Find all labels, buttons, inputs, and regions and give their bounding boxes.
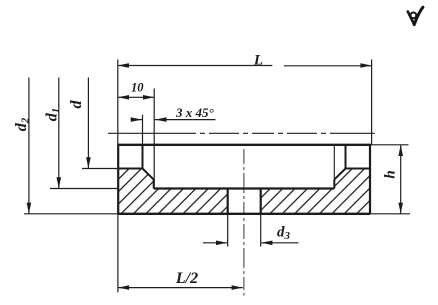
- dimension line h: [400, 145, 402, 214]
- arrow 10 right: [143, 95, 154, 100]
- svg-text:10: 10: [131, 81, 144, 95]
- dimension d3 left segment: [203, 242, 227, 244]
- arrow h top: [398, 145, 403, 156]
- extension line d2 (bottom, extends left): [24, 213, 118, 215]
- hatch region right (rim + right bottom band): [261, 169, 370, 214]
- hatch region left (rim + left bottom band): [118, 169, 228, 214]
- arrow 10 left: [118, 95, 129, 100]
- extension line d (step level): [82, 168, 118, 170]
- part outline: left edge: [117, 144, 119, 214]
- dimension 3x45 right segment: [155, 119, 216, 121]
- part outline: top face: [118, 144, 370, 146]
- svg-text:L/2: L/2: [175, 270, 198, 287]
- extension line d3 left: [227, 214, 229, 247]
- extension line L left: [117, 60, 119, 145]
- centerline vertical dash-dot: [243, 149, 245, 296]
- arrow d2: [27, 203, 32, 214]
- svg-text:h: h: [383, 170, 399, 178]
- extension line d3 right: [260, 214, 262, 247]
- part outline: bottom face: [118, 213, 370, 215]
- arrow d3 right: [261, 241, 272, 246]
- extension line chamfer inner x=142.5: [142, 115, 144, 145]
- dimension line d2: [28, 78, 30, 214]
- step wall left: [142, 145, 144, 169]
- extension line L/2 left: [117, 214, 119, 292]
- extension line h top: [370, 144, 409, 146]
- step bottom right: [346, 168, 371, 170]
- step wall right: [345, 145, 347, 169]
- dimension line L/2: [118, 287, 243, 289]
- dimension line 10: [118, 96, 154, 98]
- extension line h bottom: [370, 213, 410, 215]
- dimension line d: [87, 78, 89, 169]
- arrow d: [86, 157, 91, 168]
- inner wall left below chamfer: [153, 180, 155, 189]
- hole d3 left edge: [227, 189, 229, 214]
- axis dash-dot horizontal: [108, 132, 375, 134]
- arrow h bottom: [398, 203, 403, 214]
- chamfer right 3x45: [334, 169, 345, 180]
- dimension line d1: [58, 78, 60, 189]
- dimension line L: [118, 65, 372, 67]
- surface finish symbol: [408, 7, 423, 24]
- arrow 3x45 left: [131, 117, 142, 122]
- svg-text:d: d: [68, 100, 85, 109]
- projection line right chamfer: [333, 145, 335, 180]
- dimension 3x45 left segment: [131, 119, 143, 121]
- step bottom left: [118, 168, 142, 170]
- arrow 3x45 right: [155, 117, 166, 122]
- arrow d3 left: [216, 241, 227, 246]
- arrow d1: [57, 177, 62, 188]
- hole d3 right edge: [260, 189, 262, 214]
- svg-text:L: L: [253, 53, 263, 69]
- part outline: right edge: [369, 144, 371, 214]
- svg-text:3 x 45°: 3 x 45°: [175, 105, 215, 120]
- extension line d1 (floor level): [50, 188, 118, 190]
- chamfer left 3x45: [143, 169, 154, 180]
- arrow L/2 left: [118, 285, 129, 290]
- recess floor: [154, 187, 335, 189]
- arrow L/2 right: [232, 285, 243, 290]
- dimension d3 right segment: [261, 242, 298, 244]
- arrow L right: [360, 63, 371, 68]
- extension line L right: [371, 60, 373, 145]
- arrow L left: [118, 63, 129, 68]
- extension line chamfer outer x=154: [153, 89, 155, 189]
- inner wall right below chamfer: [333, 180, 335, 189]
